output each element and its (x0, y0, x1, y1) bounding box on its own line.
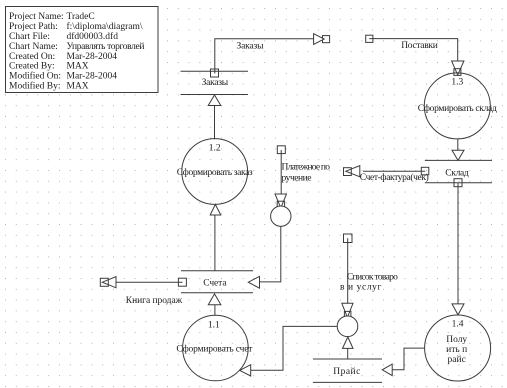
svg-text:Счета: Счета (203, 278, 227, 288)
svg-text:Modified By:: Modified By: (9, 80, 60, 91)
svg-text:f:\diploma\diagram\: f:\diploma\diagram\ (67, 21, 143, 32)
svg-text:Полу: Полу (446, 335, 467, 345)
svg-text:Счет-фактура(чек): Счет-фактура(чек) (360, 172, 429, 183)
svg-text:Управлять торговлей: Управлять торговлей (67, 41, 145, 52)
svg-text:dfd00003.dfd: dfd00003.dfd (67, 31, 119, 42)
svg-text:Сформировать счет: Сформировать счет (176, 344, 253, 355)
svg-text:Прайс: Прайс (333, 366, 360, 377)
svg-text:Сформировать склад: Сформировать склад (418, 103, 497, 114)
svg-text:Сформировать заказ: Сформировать заказ (177, 167, 253, 178)
svg-text:в и услуг: в и услуг (340, 283, 381, 293)
svg-text:Mar-28-2004: Mar-28-2004 (67, 52, 118, 62)
svg-text:Заказы: Заказы (237, 42, 265, 52)
svg-text:Поставки: Поставки (401, 41, 438, 51)
svg-text:ручение: ручение (282, 173, 312, 183)
svg-text:Chart Name:: Chart Name: (9, 42, 58, 52)
svg-text:TradeC: TradeC (67, 12, 95, 22)
svg-text:Mar-28-2004: Mar-28-2004 (67, 72, 118, 82)
svg-text:Chart File:: Chart File: (9, 32, 50, 42)
svg-text:Книга продаж: Книга продаж (126, 296, 183, 306)
svg-text:1.4: 1.4 (452, 320, 464, 330)
svg-text:MAX: MAX (67, 62, 89, 72)
svg-text:1.3: 1.3 (451, 77, 463, 87)
svg-text:Список товаро: Список товаро (347, 272, 398, 282)
svg-text:Склад: Склад (445, 168, 469, 178)
svg-text:1.1: 1.1 (208, 321, 220, 331)
svg-text:Project Path:: Project Path: (9, 22, 58, 32)
svg-text:1.2: 1.2 (209, 144, 221, 154)
svg-text:райс: райс (448, 354, 466, 365)
svg-text:Платежное по: Платежное по (282, 162, 331, 172)
svg-text:Заказы: Заказы (202, 78, 229, 88)
svg-text:Project Name:: Project Name: (9, 12, 64, 22)
svg-text:Modified On:: Modified On: (9, 71, 61, 82)
svg-text:Created On:: Created On: (9, 52, 55, 62)
svg-text:MAX: MAX (67, 81, 89, 91)
svg-text:Created By:: Created By: (9, 62, 55, 72)
svg-text:ить п: ить п (446, 345, 467, 355)
